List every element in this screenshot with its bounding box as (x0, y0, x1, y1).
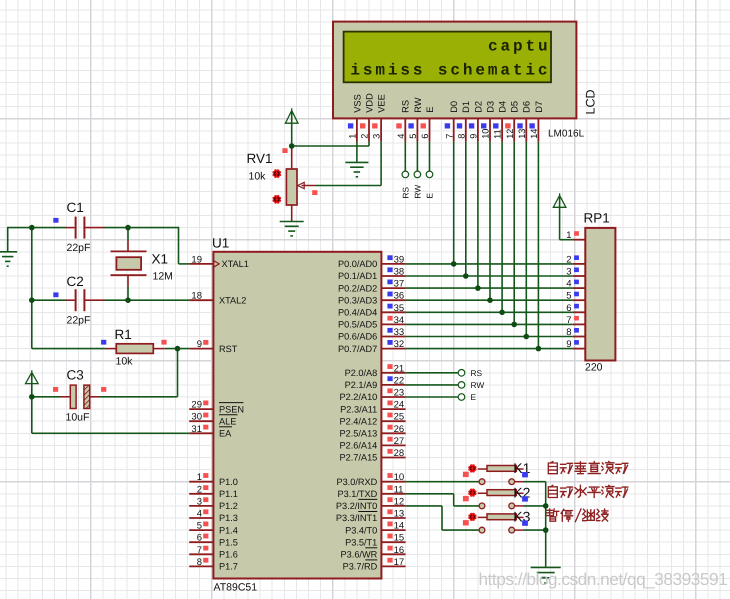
svg-text:16: 16 (394, 545, 405, 556)
svg-text:220: 220 (585, 362, 603, 374)
potentiometer RV1 10k (247, 146, 317, 221)
junction D0/P0.0 (451, 261, 457, 267)
junction K2/common (543, 503, 549, 509)
wire LCD VEE pin3 down (380, 142, 382, 186)
indicator flower K2 (468, 489, 476, 497)
state square K1 left (463, 472, 469, 477)
U1 pin 24 P2.3/A11 (381, 408, 405, 410)
svg-text:26: 26 (394, 424, 405, 435)
state square RV1 top (282, 148, 287, 153)
power arrow (RV1) (285, 108, 298, 123)
svg-text:P1.3: P1.3 (219, 513, 238, 523)
svg-text:EA: EA (219, 429, 232, 439)
wire EA row (32, 432, 189, 434)
svg-text:D1: D1 (461, 101, 471, 113)
wire LCD D4 down to P0.4 row (501, 142, 503, 313)
U1 pin 9 RST (189, 348, 213, 350)
svg-text:R1: R1 (115, 327, 132, 342)
ground (C1 net) (0, 252, 17, 266)
junction D3/P0.3 (487, 297, 493, 303)
junction D4/P0.4 (499, 310, 505, 316)
svg-text:32: 32 (394, 339, 405, 350)
svg-text:P1.6: P1.6 (219, 550, 238, 560)
svg-text:U1: U1 (212, 236, 229, 251)
junction D7/P0.7 (536, 346, 542, 352)
indicator flower RV1 bottom (273, 195, 282, 204)
indicator flower K3 (468, 513, 476, 521)
svg-text:39: 39 (394, 254, 405, 265)
svg-text:XTAL2: XTAL2 (219, 295, 246, 305)
junction D1/P0.1 (463, 273, 469, 279)
svg-text:P0.3/AD3: P0.3/AD3 (338, 295, 377, 305)
wire LCD D2 down to P0.2 row (477, 142, 479, 289)
U1 pin 11 P3.1/TXD (381, 493, 405, 495)
svg-text:ismiss schematic: ismiss schematic (350, 61, 550, 79)
svg-text:C1: C1 (67, 200, 84, 215)
wire X1 bottom (127, 287, 129, 301)
RP1 pin 6 (573, 311, 585, 313)
svg-text:P1.7: P1.7 (219, 562, 238, 572)
svg-text:3: 3 (197, 496, 202, 507)
state square K3 left (463, 520, 469, 525)
svg-text:1: 1 (348, 134, 358, 139)
U1 pin 39 P0.0/AD0 (381, 263, 405, 265)
RP1 pin 5 (573, 299, 585, 301)
svg-text:P0.5/AD5: P0.5/AD5 (338, 320, 377, 330)
wire C2 right to XTAL2 (104, 299, 189, 301)
wire R1 right to RST (165, 348, 190, 350)
U1 pin 15 P3.5/T1 (381, 541, 405, 543)
U1 pin 28 P2.7/A15 (381, 457, 405, 459)
U1 pin 6 P1.5 (189, 541, 213, 543)
svg-text:6: 6 (420, 134, 430, 139)
svg-text:P3.7/RD: P3.7/RD (343, 562, 378, 572)
U1 pin 21 P2.0/A8 (381, 372, 405, 374)
MCU U1 AT89C51 body (213, 252, 381, 579)
wire P0.2 row to RP1 (406, 287, 573, 289)
U1 pin 38 P0.1/AD1 (381, 275, 405, 277)
LCD pin 1 (356, 118, 358, 141)
svg-text:P0.4/AD4: P0.4/AD4 (338, 308, 377, 318)
svg-text:10k: 10k (249, 171, 267, 183)
wire gnd vertical C1-C2-R1 (31, 228, 33, 349)
U1 pin 22 P2.1/A9 (381, 384, 405, 386)
svg-text:18: 18 (191, 291, 202, 302)
wire P2.2 to terminal E (406, 396, 459, 398)
wire to R1 left (32, 348, 105, 350)
wire LCD pin4 to terminal (404, 142, 406, 171)
svg-text:7: 7 (444, 134, 454, 139)
U1 pin 14 P3.4/T0 (381, 529, 405, 531)
wire C3 right (100, 396, 178, 398)
LCD pin 10 (489, 118, 491, 141)
wire P0.0 row to RP1 (406, 263, 573, 265)
wire C1 row to ground corner (8, 227, 66, 229)
wire P0.5 row to RP1 (406, 323, 573, 325)
wire LCD pin6 to terminal (429, 142, 431, 171)
svg-text:P3.4/T0: P3.4/T0 (345, 525, 377, 535)
U1 pin 34 P0.5/AD5 (381, 323, 405, 325)
svg-text:P0.2/AD2: P0.2/AD2 (338, 283, 377, 293)
button K1 (478, 466, 524, 485)
svg-text:25: 25 (394, 412, 405, 423)
wire RV1 node to LCD VDD pin2 (292, 145, 369, 147)
wire to XTAL1 pin (179, 263, 190, 265)
U1 pin 16 P3.6/WR (381, 553, 405, 555)
svg-text:P1.4: P1.4 (219, 525, 238, 535)
wire X1 top (127, 228, 129, 240)
junction D6/P0.6 (524, 334, 530, 340)
wire LCD D6 down to P0.6 row (525, 142, 527, 337)
capacitor C3 10uF (53, 368, 106, 424)
wire RST node down to C3 (177, 349, 179, 397)
svg-text:P2.1/A9: P2.1/A9 (345, 380, 378, 390)
wire C1 right to corner (104, 227, 179, 229)
wire LCD D5 down to P0.5 row (513, 142, 515, 325)
svg-text:RS: RS (471, 368, 483, 378)
svg-text:E: E (471, 392, 477, 402)
crystal top pin (127, 240, 129, 251)
crystal X1 12M (111, 251, 173, 282)
LCD pin 7 (453, 118, 455, 141)
svg-text:VEE: VEE (377, 94, 387, 113)
svg-text:9: 9 (197, 339, 202, 350)
svg-text:D0: D0 (449, 101, 459, 113)
svg-text:P3.2/INT0: P3.2/INT0 (336, 501, 377, 511)
junction RV1 top (289, 143, 295, 149)
wire P0.4 row to RP1 (406, 311, 573, 313)
wire VCC node down to EA row (31, 397, 33, 434)
svg-text:38: 38 (394, 267, 405, 278)
svg-text:1: 1 (566, 230, 571, 241)
U1 pin 36 P0.3/AD3 (381, 299, 405, 301)
terminal circle RW (LCD side) (414, 171, 421, 178)
capacitor C1 (53, 200, 104, 254)
wire C2 left (32, 299, 66, 301)
junction X1 top (125, 225, 131, 231)
svg-text:31: 31 (191, 424, 202, 435)
svg-text:34: 34 (394, 315, 405, 326)
svg-text:RP1: RP1 (584, 211, 610, 226)
U1 pin 26 P2.5/A13 (381, 432, 405, 434)
svg-text:RV1: RV1 (247, 151, 273, 166)
svg-text:P3.3/INT1: P3.3/INT1 (336, 513, 377, 523)
svg-text:5: 5 (566, 291, 571, 302)
ground (LCD VSS) (345, 162, 368, 176)
svg-text:P1.5: P1.5 (219, 537, 238, 547)
junction C3 VCC node (29, 394, 35, 400)
RP1 pin 7 (573, 323, 585, 325)
svg-text:29: 29 (191, 400, 202, 411)
svg-text:8: 8 (566, 327, 571, 338)
U1 pin 37 P0.2/AD2 (381, 287, 405, 289)
LCD pin 5 (416, 118, 418, 141)
LCD pin 14 (537, 118, 539, 141)
svg-text:RS: RS (401, 187, 411, 199)
svg-text:3: 3 (372, 134, 382, 139)
svg-text:P2.3/A11: P2.3/A11 (340, 404, 377, 414)
LCD pin 3 (380, 118, 382, 141)
svg-text:RW: RW (471, 380, 485, 390)
svg-text:14: 14 (529, 129, 539, 139)
wire LCD VSS pin1 to ground (356, 142, 358, 162)
wire K right to common (524, 529, 546, 531)
wire VCC arrow to node (31, 373, 33, 397)
RP1 pin 8 (573, 336, 585, 338)
LCD pin 4 (404, 118, 406, 141)
U1 pin 32 P0.7/AD7 (381, 348, 405, 350)
wire LCD D7 down to P0.7 row (537, 142, 539, 349)
svg-text:4: 4 (566, 279, 571, 290)
svg-text:30: 30 (191, 412, 202, 423)
RP1 pin 3 (573, 275, 585, 277)
svg-text:RW: RW (413, 97, 423, 113)
svg-text:PSEN: PSEN (219, 404, 244, 414)
wire P0.6 row to RP1 (406, 336, 573, 338)
wire P2.0 to terminal RS (406, 372, 459, 374)
svg-text:2: 2 (566, 254, 571, 265)
svg-text:RST: RST (219, 344, 238, 354)
ground (buttons) (531, 567, 561, 583)
svg-text:P2.0/A8: P2.0/A8 (345, 368, 378, 378)
svg-text:X1: X1 (152, 252, 169, 267)
svg-text:captu: captu (488, 38, 551, 56)
svg-text:P2.5/A13: P2.5/A13 (339, 429, 377, 439)
svg-text:12: 12 (394, 496, 405, 507)
LCD pin 11 (501, 118, 503, 141)
U1 pin 12 P3.2/INT0 (381, 505, 405, 507)
svg-text:14: 14 (394, 521, 405, 532)
state square RV1 wiper (312, 190, 317, 195)
svg-text:8: 8 (456, 134, 466, 139)
junction D2/P0.2 (475, 285, 481, 291)
LCD pin 13 (525, 118, 527, 141)
svg-text:AT89C51: AT89C51 (214, 582, 258, 594)
state square K2 right (522, 496, 528, 501)
svg-text:D5: D5 (510, 101, 520, 113)
U1 pin 35 P0.4/AD4 (381, 311, 405, 313)
svg-text:11: 11 (493, 129, 503, 139)
svg-text:E: E (425, 107, 435, 113)
wire K right to common (524, 481, 546, 483)
wire P0.7 row to RP1 (406, 348, 573, 350)
wire P3.2 to K3 (jog) (406, 505, 442, 507)
svg-text:4: 4 (197, 509, 202, 520)
svg-text:K3: K3 (513, 509, 530, 525)
svg-text:13: 13 (517, 129, 527, 139)
svg-text:10uF: 10uF (66, 412, 90, 424)
svg-text:6: 6 (566, 303, 571, 314)
U1 pin 30 ALE (189, 420, 213, 422)
terminal circle RS (LCD side) (402, 171, 409, 178)
U1 pin 10 P3.0/RXD (381, 481, 405, 483)
U1 pin 17 P3.7/RD (381, 565, 405, 567)
svg-text:P3.5/T1: P3.5/T1 (345, 537, 377, 547)
button K3 (478, 514, 524, 533)
svg-text:12: 12 (505, 129, 515, 139)
wire P0.3 row to RP1 (406, 299, 573, 301)
RP1 pin 4 (573, 287, 585, 289)
svg-text:P2.4/A12: P2.4/A12 (339, 416, 377, 426)
wire VEE row to RV1 wiper (316, 185, 381, 187)
LCD pin 2 (368, 118, 370, 141)
svg-text:XTAL1: XTAL1 (222, 259, 249, 269)
U1 pin 27 P2.6/A14 (381, 444, 405, 446)
RP1 pin 2 (573, 263, 585, 265)
wire down to ground (7, 227, 9, 251)
svg-text:K1: K1 (513, 460, 530, 476)
svg-text:https://blog.csdn.net/qq_38393: https://blog.csdn.net/qq_38393591 (479, 569, 728, 589)
RP1 pin 1 (573, 239, 585, 241)
junction X1 bottom (125, 297, 131, 303)
wire P3.0 to K1 (406, 481, 480, 483)
svg-text:P1.1: P1.1 (219, 489, 238, 499)
indicator flower RV1 top (273, 169, 282, 178)
svg-text:11: 11 (394, 484, 404, 495)
svg-text:21: 21 (394, 363, 405, 374)
U1 pin 4 P1.3 (189, 517, 213, 519)
U1 pin 8 P1.7 (189, 565, 213, 567)
wire arrow down to RP1 pin1 (559, 196, 561, 240)
svg-text:2: 2 (197, 484, 202, 495)
U1 pin 1 P1.0 (189, 481, 213, 483)
svg-text:5: 5 (408, 134, 418, 139)
svg-text:5: 5 (197, 521, 202, 532)
svg-text:10: 10 (481, 129, 491, 139)
svg-text:P2.7/A15: P2.7/A15 (339, 453, 377, 463)
svg-text:D6: D6 (522, 101, 532, 113)
junction K3/common (543, 527, 549, 533)
svg-text:10k: 10k (116, 356, 134, 368)
state square K1 right (522, 472, 528, 477)
label K3 (pause/continue) (547, 509, 608, 522)
LCD pin 9 (477, 118, 479, 141)
svg-text:P1.0: P1.0 (219, 477, 238, 487)
LCD pin 6 (429, 118, 431, 141)
state square K2 left (463, 496, 469, 501)
svg-text:36: 36 (394, 291, 405, 302)
svg-text:P2.6/A14: P2.6/A14 (339, 441, 377, 451)
svg-text:LM016L: LM016L (548, 129, 585, 140)
svg-text:12M: 12M (153, 271, 173, 283)
terminal circle RW (MCU side) (458, 382, 465, 389)
wire K right to common (524, 505, 546, 507)
svg-text:37: 37 (394, 279, 405, 290)
svg-text:2: 2 (360, 134, 370, 139)
wire LCD pin5 to terminal (416, 142, 418, 171)
RP1 pin 9 (573, 348, 585, 350)
wire P3.1 to K2 (jog) (406, 493, 454, 495)
svg-text:ALE: ALE (219, 416, 236, 426)
U1 pin 3 P1.2 (189, 505, 213, 507)
svg-text:RS: RS (401, 100, 411, 113)
svg-text:35: 35 (394, 303, 405, 314)
indicator flower K1 (468, 464, 476, 472)
U1 pin 33 P0.6/AD6 (381, 336, 405, 338)
svg-text:P2.2/A10: P2.2/A10 (339, 392, 377, 402)
wire P2.1 to terminal RW (406, 384, 459, 386)
U1 pin 25 P2.4/A12 (381, 420, 405, 422)
svg-text:P3.0/RXD: P3.0/RXD (336, 477, 377, 487)
svg-text:C2: C2 (67, 274, 84, 289)
state square K3 right (522, 520, 528, 525)
svg-text:33: 33 (394, 327, 405, 338)
terminal circle E (LCD side) (426, 171, 433, 178)
svg-text:6: 6 (197, 533, 202, 544)
svg-text:D2: D2 (473, 101, 483, 113)
svg-text:P0.6/AD6: P0.6/AD6 (338, 332, 377, 342)
junction RST node (175, 346, 181, 352)
XTAL1 clock arrow (213, 261, 219, 268)
wire LCD D0 down to P0.0 row (453, 142, 455, 264)
junction D5/P0.5 (511, 322, 517, 328)
LCD module LM016L body (333, 22, 576, 119)
svg-text:D4: D4 (498, 101, 508, 113)
U1 pin 5 P1.4 (189, 529, 213, 531)
svg-text:17: 17 (394, 557, 405, 568)
svg-text:C3: C3 (67, 368, 84, 383)
svg-text:13: 13 (394, 509, 405, 520)
U1 pin 31 EA (189, 432, 213, 434)
junction C2 left node (29, 297, 35, 303)
svg-text:22pF: 22pF (67, 242, 91, 254)
svg-text:9: 9 (566, 339, 571, 350)
crystal bottom pin (127, 275, 129, 286)
wire C3 left to VCC node (32, 396, 61, 398)
svg-text:19: 19 (191, 254, 202, 265)
button K2 (478, 490, 524, 509)
svg-text:28: 28 (394, 448, 405, 459)
wire LCD D1 down to P0.1 row (465, 142, 467, 276)
svg-text:7: 7 (566, 315, 571, 326)
LCD screen (344, 32, 551, 83)
svg-text:LCD: LCD (584, 89, 598, 114)
svg-text:4: 4 (396, 134, 406, 139)
wire corner down to XTAL1 (178, 227, 180, 264)
svg-text:P0.0/AD0: P0.0/AD0 (338, 259, 377, 269)
svg-text:15: 15 (394, 533, 405, 544)
svg-text:P1.2: P1.2 (219, 501, 238, 511)
LCD pin 12 (513, 118, 515, 141)
LCD pin 8 (465, 118, 467, 141)
svg-text:P3.6/WR: P3.6/WR (341, 550, 378, 560)
label K2 (auto horizontal scroll) (548, 485, 628, 497)
svg-text:22: 22 (394, 375, 405, 386)
U1 pin 19 XTAL1 (189, 263, 213, 265)
svg-text:K2: K2 (513, 484, 530, 500)
terminal circle RS (MCU side) (458, 370, 465, 377)
U1 pin 13 P3.3/INT1 (381, 517, 405, 519)
terminal circle E (MCU side) (458, 394, 465, 401)
U1 pin 2 P1.1 (189, 493, 213, 495)
svg-text:RW: RW (413, 185, 423, 199)
svg-text:D7: D7 (534, 101, 544, 113)
U1 pin 7 P1.6 (189, 553, 213, 555)
svg-text:P0.7/AD7: P0.7/AD7 (338, 344, 377, 354)
svg-text:VSS: VSS (352, 94, 362, 113)
U1 pin 29 PSEN (189, 408, 213, 410)
svg-text:7: 7 (197, 545, 202, 556)
svg-text:P3.1/TXD: P3.1/TXD (337, 489, 377, 499)
svg-text:23: 23 (394, 388, 405, 399)
svg-text:E: E (425, 193, 435, 199)
wire arrow to RV1 node (291, 111, 293, 146)
wire P0.1 row to RP1 (406, 275, 573, 277)
svg-text:22pF: 22pF (67, 315, 91, 327)
capacitor C2 (53, 274, 104, 327)
junction C1 left node (29, 225, 35, 231)
wire LCD D3 down to P0.3 row (489, 142, 491, 301)
